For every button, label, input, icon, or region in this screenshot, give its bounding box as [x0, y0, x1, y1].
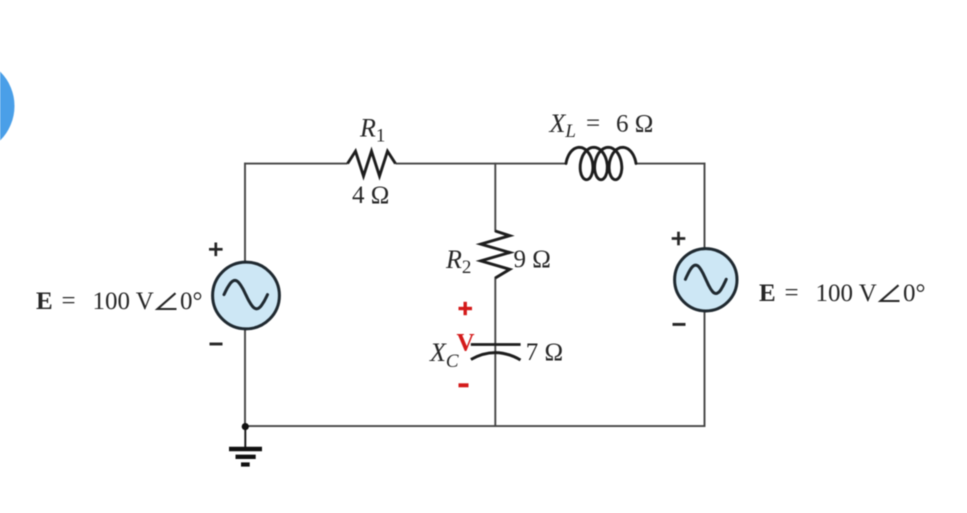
svg-text:=: =: [785, 280, 799, 307]
svg-text:100 V: 100 V: [816, 280, 877, 307]
wire top-middle horizontal: [396, 163, 568, 165]
wire top-left horizontal: [244, 163, 347, 165]
junction dot ground node: [242, 423, 249, 430]
wire left vertical lower: [244, 328, 246, 426]
wire right vertical upper: [704, 163, 706, 250]
wire top-right horizontal: [635, 163, 705, 165]
wire bottom horizontal: [245, 425, 705, 427]
red plus capacitor: [459, 302, 473, 315]
source E left: [213, 262, 280, 329]
minus sign left source: [210, 343, 223, 346]
svg-text:100 V: 100 V: [93, 288, 154, 315]
wire middle branch upper: [494, 163, 496, 232]
resistor R2: [481, 231, 510, 278]
angle symbol left: [158, 293, 177, 309]
svg-text:9 Ω: 9 Ω: [514, 246, 551, 273]
minus sign right source: [673, 323, 686, 326]
inductor XL: [566, 147, 636, 179]
svg-text:4 Ω: 4 Ω: [352, 182, 389, 209]
svg-text:0°: 0°: [903, 280, 926, 307]
svg-text:E: E: [36, 288, 53, 315]
ground: [229, 426, 262, 465]
capacitor XC curved plate: [471, 353, 521, 360]
svg-text:V: V: [457, 330, 475, 357]
svg-text:6 Ω: 6 Ω: [616, 111, 653, 138]
svg-text:=: =: [62, 288, 76, 315]
resistor R1: [348, 151, 396, 176]
svg-text:E: E: [759, 280, 776, 307]
wire right vertical lower: [704, 310, 706, 427]
wire left vertical upper: [244, 163, 246, 263]
source E right: [675, 249, 737, 311]
plus sign left source: [209, 243, 223, 257]
svg-text:0°: 0°: [180, 288, 203, 315]
wire middle branch lower: [494, 277, 496, 427]
capacitor XC top plate: [471, 343, 521, 346]
decorative blue circle left edge: [0, 58, 15, 155]
svg-text:7 Ω: 7 Ω: [526, 339, 563, 366]
angle symbol right: [881, 285, 900, 301]
plus sign right source: [672, 232, 686, 246]
red minus capacitor: [459, 383, 469, 387]
svg-text:=: =: [586, 110, 600, 137]
